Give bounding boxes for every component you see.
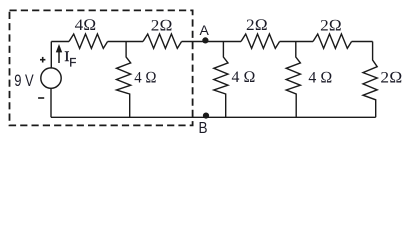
svg-text:4 Ω: 4 Ω [134,68,157,86]
svg-text:B: B [199,120,208,137]
voltage source - polarity mark [38,97,44,99]
dashed box (two-port network boundary) [10,10,193,125]
svg-text:2Ω: 2Ω [380,69,402,87]
resistor R4 2ohm (horizontal, right of node A) [241,34,280,48]
wire left branch: top corner down to source + terminal [50,42,52,69]
wire top rail: R1 to R2 (junction of R3 at x=126) [108,41,143,43]
svg-text:F: F [69,58,76,70]
svg-text:2Ω: 2Ω [320,16,342,34]
resistor R5 4ohm (vertical, first shunt right of A) [214,42,228,118]
wire top rail: source corner to R1 [51,41,69,43]
svg-text:A: A [200,22,210,38]
svg-text:4 Ω: 4 Ω [308,68,332,86]
resistor R3 4ohm (vertical, inside box) [117,42,131,118]
wire top rail: R6 to top-right corner [352,41,373,43]
svg-text:4 Ω: 4 Ω [232,68,256,86]
wire left branch: source - terminal down to bottom rail [50,88,52,117]
voltage source VS 9V (circle symbol) [41,68,61,88]
svg-text:9 V: 9 V [14,71,34,90]
svg-text:2Ω: 2Ω [151,16,173,34]
wire bottom rail: source through node B to bottom-right corner [51,116,376,118]
node B (junction dot) [203,113,209,119]
resistor R1 4ohm (top left, horizontal) [69,34,108,48]
wire top rail: R2 through node A to R4 (junction of R5 at x=223) [182,41,241,43]
svg-text:4Ω: 4Ω [75,16,97,34]
current arrow I_F (pointing up) [56,44,62,63]
resistor R2 2ohm (top, horizontal, inside box) [143,34,182,48]
resistor R8 2ohm (vertical, far right edge) [363,42,377,118]
voltage source + polarity mark [40,57,45,63]
resistor R6 2ohm (horizontal, far right top) [313,34,352,48]
resistor R7 4ohm (vertical, second shunt) [286,42,300,118]
svg-text:2Ω: 2Ω [246,16,268,34]
node A (junction dot) [202,37,208,43]
wire top rail: R4 to R6 (junction of R7 at x=296) [280,41,313,43]
